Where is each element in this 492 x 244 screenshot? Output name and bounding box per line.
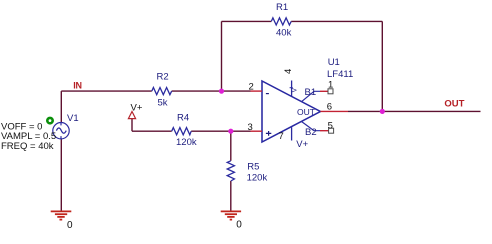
V+ power symbol label (131, 102, 143, 113)
op-amp pin 5 red stub (320, 130, 329, 132)
svg-text:IN: IN (73, 81, 82, 91)
op-amp pin 4 number label (rotated) (283, 69, 294, 74)
wire IN horizontal right of R2 (172, 90, 251, 92)
op-amp pin B2 symbol lines (302, 122, 321, 131)
wire feedback right vertical (381, 21, 383, 111)
V1 parameter text VAMPL (1, 131, 56, 142)
op-amp B2 label (305, 127, 317, 138)
op-amp pin 1 terminal square (328, 89, 333, 94)
svg-text:120k: 120k (247, 173, 268, 184)
svg-text:0: 0 (67, 220, 73, 231)
node label OUT (444, 98, 464, 109)
wire feedback top left segment (222, 20, 272, 22)
wire R5 bottom (230, 181, 232, 211)
wire lower right of R4 (191, 130, 250, 132)
ground symbol middle (221, 211, 241, 219)
svg-text:R1: R1 (276, 2, 288, 13)
svg-text:B2: B2 (305, 127, 317, 138)
svg-text:B1: B1 (305, 87, 317, 98)
junction node at R2 / feedback (219, 89, 224, 94)
svg-text:R4: R4 (177, 113, 189, 124)
wire IN vertical to source (60, 91, 62, 123)
op-amp V+ label below pin 7 (296, 139, 308, 150)
op-amp pin 5 terminal square (329, 128, 334, 133)
op-amp minus input sign (266, 93, 269, 95)
svg-text:V+: V+ (131, 102, 143, 113)
op-amp OUT label inside triangle (297, 107, 315, 117)
svg-text:4: 4 (283, 69, 294, 74)
op-amp pin 6 number label (327, 102, 332, 113)
svg-text:V+: V+ (296, 139, 308, 150)
V+ power symbol triangle (128, 112, 135, 119)
svg-text:7: 7 (279, 131, 284, 142)
op-amp U1 triangle (262, 57, 353, 142)
wire output (348, 110, 481, 112)
svg-text:2: 2 (249, 81, 254, 92)
svg-text:3: 3 (248, 122, 253, 133)
op-amp pin 2 number label (249, 81, 254, 92)
wire IN horizontal left of R2 (61, 90, 152, 92)
op-amp pin 6 red stub (320, 110, 348, 112)
resistor R5 (227, 161, 267, 184)
wire V+ stub vertical (131, 119, 133, 131)
wire lower left of R4 (132, 130, 172, 132)
svg-text:0: 0 (236, 220, 242, 231)
svg-text:1: 1 (328, 80, 333, 91)
op-amp pin 4 stub (291, 81, 293, 97)
svg-text:R5: R5 (247, 162, 259, 173)
op-amp B1 label (305, 87, 317, 98)
svg-text:120k: 120k (176, 137, 197, 148)
svg-text:5: 5 (328, 120, 333, 131)
op-amp pin 2 red stub (251, 90, 263, 92)
V1 parameter text FREQ (1, 141, 54, 152)
op-amp pin 1 red stub (320, 90, 328, 92)
op-amp pin B1 symbol lines (302, 91, 321, 101)
op-amp pin 3 number label (248, 122, 253, 133)
svg-text:V: V (292, 88, 299, 93)
junction node at R4 / R5 (228, 129, 233, 134)
svg-text:V1: V1 (67, 113, 79, 124)
op-amp pin 7 number label (279, 131, 284, 142)
ground symbol left (51, 211, 72, 219)
junction node at output (380, 109, 385, 114)
svg-text:U1: U1 (328, 57, 340, 68)
wire feedback left vertical (221, 21, 223, 91)
svg-text:FREQ = 40k: FREQ = 40k (1, 141, 54, 152)
op-amp pin 1 number label (328, 80, 333, 91)
op-amp pin 5 number label (328, 120, 333, 131)
node label IN (73, 81, 82, 91)
svg-text:6: 6 (327, 102, 332, 113)
resistor R1 (271, 2, 291, 39)
svg-text:5k: 5k (158, 97, 168, 108)
wire R5 top (230, 131, 232, 161)
wire source to ground (60, 139, 62, 211)
ground middle 0 label (236, 220, 242, 231)
op-amp pin 3 red stub (251, 130, 263, 132)
resistor R2 (152, 72, 172, 109)
V1 parameter text VOFF (1, 122, 42, 133)
voltage source V1 (53, 113, 79, 139)
op-amp plus input sign (266, 131, 271, 136)
svg-text:OUT: OUT (297, 107, 315, 117)
svg-text:LF411: LF411 (327, 69, 353, 80)
op-amp pin 7 stub (291, 127, 293, 140)
op-amp V- mark near pin 4 (290, 88, 299, 93)
ground left 0 label (67, 220, 73, 231)
svg-text:OUT: OUT (444, 98, 464, 109)
resistor R4 (172, 113, 197, 149)
svg-text:40k: 40k (276, 28, 292, 39)
wire feedback top right segment (291, 20, 382, 22)
V1 green marker (47, 118, 52, 123)
svg-text:R2: R2 (157, 72, 169, 83)
